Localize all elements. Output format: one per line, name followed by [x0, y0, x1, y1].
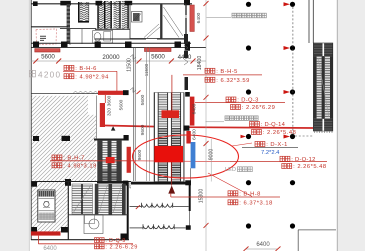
- wavy shelf row 2: [130, 224, 186, 229]
- red arrows at dots: [241, 2, 291, 138]
- svg-text:: D-X-1: : D-X-1: [266, 142, 287, 148]
- svg-text:: 4.98*2.94: : 4.98*2.94: [75, 74, 109, 80]
- stair flight C: [114, 1, 121, 29]
- svg-text:6400: 6400: [256, 242, 270, 248]
- red bar A: [190, 97, 195, 126]
- svg-text:: D-Q-14: : D-Q-14: [261, 122, 286, 128]
- red annotation text: [95, 244, 99, 249]
- svg-text:5600: 5600: [151, 53, 165, 60]
- svg-text:9600: 9600: [140, 124, 146, 135]
- svg-text:: D-Q-9: : D-Q-9: [105, 238, 125, 244]
- svg-text:: 2.26-6.29: : 2.26-6.29: [105, 244, 137, 250]
- svg-text:: D-Q-3: : D-Q-3: [237, 98, 258, 104]
- bottom stairs flight D: [72, 184, 93, 214]
- red dashed fixture box: [36, 29, 57, 45]
- wall between rooms: [161, 4, 163, 39]
- svg-text:15300: 15300: [199, 189, 205, 204]
- svg-text:6400: 6400: [192, 129, 198, 140]
- columns on bottom wall: [33, 42, 39, 48]
- red annotation text: [64, 74, 69, 79]
- bottom wall of top block: [31, 42, 191, 44]
- wall above left escalator: [94, 139, 124, 141]
- red lightbox bar bottom-left: [31, 231, 61, 235]
- stair flight B (double): [97, 1, 112, 29]
- red annotation text: [255, 142, 260, 147]
- svg-text:3600: 3600: [107, 95, 113, 106]
- red annotation text: [205, 77, 210, 82]
- svg-text:9600: 9600: [137, 149, 143, 160]
- treads: [317, 56, 322, 119]
- machine room: [130, 4, 161, 39]
- svg-text:5600: 5600: [119, 99, 125, 110]
- bottom stairs flight E: [95, 184, 126, 215]
- red annotation text: [231, 105, 236, 110]
- svg-text:6400: 6400: [196, 12, 202, 23]
- svg-text:: 2.26*5.48: : 2.26*5.48: [293, 164, 326, 170]
- svg-text:166: 166: [127, 182, 132, 189]
- svg-text:9000: 9000: [209, 149, 215, 161]
- svg-text:11500: 11500: [144, 63, 149, 76]
- hatch region lower (around elevator): [31, 181, 68, 233]
- wall x186 upper segments: [185, 5, 187, 41]
- stair flight A: [78, 2, 89, 22]
- interior wall vertical with hatch: [67, 4, 70, 44]
- toilet room: [93, 31, 113, 44]
- bottom machine block: [314, 119, 333, 131]
- elevator: [38, 190, 55, 222]
- up arrow small: [111, 126, 116, 130]
- svg-text:6400: 6400: [43, 246, 57, 251]
- svg-text:: 2.26*6.29: : 2.26*6.29: [242, 105, 275, 111]
- svg-text:5600: 5600: [140, 94, 146, 105]
- column top-4: [184, 0, 190, 5]
- red annotation text: [52, 155, 57, 160]
- svg-text:4200: 4200: [38, 71, 60, 80]
- note: embedded lightbox ad (mid): [225, 116, 229, 121]
- hatch region upper: [31, 96, 96, 181]
- wavy shelf row 1: [130, 203, 189, 208]
- red bar B: [186, 131, 190, 144]
- blue LED bar: [191, 142, 196, 168]
- red annotation text: [250, 122, 255, 127]
- column top-1: [33, 1, 38, 6]
- note: height 4200: [30, 70, 36, 77]
- red lightbox vertical bar with leader: [104, 95, 106, 103]
- svg-text:: 6.32*3.59: : 6.32*3.59: [216, 78, 249, 84]
- svg-text:LED: LED: [225, 167, 236, 173]
- column top-3b: [96, 1, 103, 6]
- red tick on row1: [136, 205, 140, 209]
- red annotation text: [205, 68, 210, 73]
- svg-text:7.2*2.4: 7.2*2.4: [261, 150, 280, 156]
- svg-text:320: 320: [107, 108, 113, 116]
- red annotation text: [280, 156, 285, 161]
- note: embedded ad lightbox (top): [232, 13, 236, 18]
- svg-text:11500: 11500: [127, 58, 133, 72]
- left wall: [30, 0, 32, 240]
- stair flight D: [122, 1, 129, 29]
- red box on left escalator: [106, 157, 115, 163]
- red annotation text: [226, 97, 231, 102]
- red annotation text: [95, 238, 99, 243]
- wall below rooms: [95, 38, 186, 40]
- svg-text:: 4.98*3.19: : 4.98*3.19: [63, 163, 96, 169]
- red lightbox bar left on wall: [35, 49, 60, 52]
- red lightbox bar B-H-6: [98, 91, 123, 95]
- through line of annotations: [133, 160, 230, 163]
- red annotation text: [228, 191, 233, 196]
- svg-text:18400: 18400: [197, 56, 203, 71]
- red lightbox bar center on wall: [145, 48, 172, 52]
- corridor approach lines: [146, 48, 148, 181]
- svg-text:5600: 5600: [41, 53, 55, 60]
- red annotation text: [252, 130, 257, 135]
- rails: [314, 56, 317, 119]
- wall below stairs: [60, 28, 96, 30]
- red tick: [137, 91, 141, 95]
- svg-text:20000: 20000: [102, 54, 120, 61]
- column top-2 (double): [60, 1, 71, 6]
- left escalator bank: [98, 141, 122, 182]
- svg-text:: B-H-8: : B-H-8: [239, 191, 260, 197]
- feet: [315, 131, 333, 133]
- svg-text:: B-H-7: : B-H-7: [63, 156, 84, 162]
- right room: [162, 4, 186, 39]
- svg-text:: 6.37*3.18: : 6.37*3.18: [239, 200, 272, 206]
- red annotation text: [228, 200, 233, 205]
- svg-text:: B-H-5: : B-H-5: [216, 69, 237, 75]
- big red rect (highlight): [154, 146, 183, 162]
- column: [123, 90, 129, 95]
- red annotation text: [282, 164, 287, 169]
- top wall: [31, 3, 192, 5]
- leader from B-H-5 down to red box: [171, 75, 173, 112]
- red annotation text: [52, 163, 57, 168]
- room divider wall: [31, 26, 68, 28]
- column top-3: [125, 1, 133, 5]
- wall segments below: [184, 34, 188, 44]
- svg-text:: B-H-6: : B-H-6: [75, 66, 96, 72]
- up arrow dark red: [168, 185, 175, 193]
- red annotation text: [64, 65, 69, 70]
- D-Q-9 leader: [37, 236, 39, 244]
- red box upper escalator: [162, 110, 180, 118]
- svg-text:: D-Q-12: : D-Q-12: [291, 157, 315, 163]
- toilet bottom: [84, 215, 103, 234]
- column at bank top right: [185, 92, 190, 97]
- top machine block: [314, 43, 333, 56]
- red vertical lightbox bar: [127, 147, 131, 173]
- column: [183, 126, 189, 131]
- svg-text:6400: 6400: [192, 103, 198, 114]
